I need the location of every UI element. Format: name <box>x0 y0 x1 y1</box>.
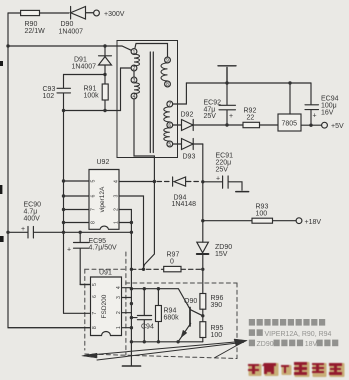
capacitor EC92 <box>219 83 236 125</box>
op-amp U91 FSD200 box <box>91 277 122 336</box>
node R93 tap <box>201 219 204 222</box>
wire U91 pin2 stub <box>122 312 132 314</box>
node D91 top <box>103 44 106 47</box>
wire U91 pin5 stub <box>80 284 90 286</box>
wire secondary gnd rail <box>186 82 311 84</box>
note text chinese <box>249 319 339 348</box>
node 7805 gnd <box>288 81 291 84</box>
resistor R90 <box>21 10 40 15</box>
wire U92 pin8 stub <box>64 222 90 224</box>
wire +18V vertical <box>202 144 204 242</box>
wire 7805 gnd pin <box>289 83 291 114</box>
transformer pin 6 <box>167 122 173 128</box>
resistor R95 <box>200 322 206 338</box>
leader arrowhead left <box>82 353 97 358</box>
capacitor EC91 <box>203 176 242 190</box>
winding 9-8 <box>161 63 168 81</box>
wire U92 pin2 stub <box>119 210 131 367</box>
transformer core <box>150 52 153 153</box>
resistor R96 <box>200 294 206 310</box>
zener ZD90 <box>197 242 209 253</box>
transformer pin 8 <box>165 81 171 87</box>
winding primary 1-2 <box>134 54 140 66</box>
wire R92 to 7805 <box>260 124 279 126</box>
node EC90 left <box>6 231 9 234</box>
wire pin4 to FB node <box>134 99 154 182</box>
leader arrow barb <box>215 343 242 358</box>
node collector <box>201 314 204 317</box>
node pin1 right <box>130 221 133 224</box>
wire U91 pin4 stub <box>122 287 132 289</box>
node EC91 tap <box>201 180 204 183</box>
transistor Q90 <box>189 308 191 327</box>
wire U92 pin6 stub <box>64 195 90 197</box>
leader arrow line upper <box>84 341 244 355</box>
wire snubber top rail <box>8 46 131 50</box>
transformer pin 5 <box>167 141 173 147</box>
transformer pin 3 <box>131 77 137 83</box>
wire base feed line <box>131 289 189 309</box>
node bottom c <box>157 340 160 343</box>
resistor R94 <box>157 289 159 342</box>
edge smudge 2 <box>0 185 2 194</box>
note line 3 <box>249 340 339 349</box>
transformer pin 1 <box>131 49 137 55</box>
terminal +18V <box>296 218 302 224</box>
wire drain bus <box>63 111 65 314</box>
node bus-EC90 cross <box>62 231 65 234</box>
wire U92 pin1 stub <box>119 222 131 224</box>
wire pin2 stub <box>121 67 132 69</box>
node D91 bottom <box>103 73 106 76</box>
wire 7805 output <box>301 124 322 126</box>
wire U91 pin8 stub <box>8 327 91 329</box>
wire R95 bottom <box>202 338 204 342</box>
wire pin7 riser to gnd rail <box>173 83 187 104</box>
wire U92 pin5 stub <box>64 180 90 182</box>
transformer pin 4 <box>131 93 137 99</box>
wire U91 pin3 stub <box>122 297 132 299</box>
leader arrowhead right <box>234 339 247 346</box>
winding 7-6 <box>164 107 170 122</box>
transformer T outer box <box>117 41 178 158</box>
note line 2 <box>249 329 332 338</box>
wire U91 pin1 stub <box>122 327 132 329</box>
node R97 left a <box>130 268 133 271</box>
winding 6-5 <box>164 128 170 141</box>
wire top input <box>8 12 69 14</box>
node at rail top <box>6 44 9 47</box>
wire snubber mid <box>64 74 106 76</box>
diode D90 <box>71 7 94 20</box>
pin digits U91 <box>92 283 122 329</box>
capacitor C94 <box>131 289 151 342</box>
node R94 riser top <box>157 287 160 290</box>
diode D91 <box>99 46 112 75</box>
emitter arrow Q90 <box>181 330 187 337</box>
transformer pin 7 <box>167 101 173 107</box>
node R91 bottom <box>103 109 106 112</box>
wire snubber bottom rail <box>64 68 121 111</box>
node gnd drop b <box>130 302 133 305</box>
node pin6 <box>62 194 65 197</box>
wire U92 pin3 stub <box>119 196 144 269</box>
node EC92 bottom <box>225 123 228 126</box>
terminal +5V <box>322 122 328 128</box>
dashed rework box <box>85 252 237 359</box>
node pin8 <box>62 221 65 224</box>
ground main <box>122 365 140 367</box>
wire U92 pin4 FB stub <box>119 181 154 183</box>
resistor R91 <box>104 75 106 111</box>
ground EC91 <box>236 191 249 193</box>
winding aux 3-4 <box>134 83 140 94</box>
node EC90 wire end <box>130 231 133 234</box>
node gnd drop a <box>130 287 133 290</box>
op-amp U92 VIPER12A box <box>89 170 119 230</box>
resistor R97 <box>164 266 181 271</box>
edge smudge 3 <box>0 236 4 242</box>
leader arrow line lower <box>97 342 244 360</box>
node bottom d <box>176 340 179 343</box>
node EC95 top <box>79 231 82 234</box>
node R97 right <box>201 268 204 271</box>
note line 1 glyph blobs <box>249 319 325 326</box>
wire FB drop jog <box>144 182 155 269</box>
wire R97 dashed line <box>131 268 201 270</box>
wire bottom node line <box>131 341 202 343</box>
wire R96-R95 node <box>202 309 204 322</box>
wire ZD90 to R97 line <box>202 255 204 294</box>
diode D92 <box>173 120 243 131</box>
node FB <box>153 180 156 183</box>
capacitor EC95 <box>74 232 91 284</box>
capacitor C93 <box>57 75 71 111</box>
node bottom b <box>143 340 146 343</box>
node R97 left b <box>142 268 145 271</box>
diode D94 dashed link <box>157 181 172 183</box>
node C93 bottom <box>62 109 65 112</box>
transformer pin 2 <box>131 65 137 71</box>
wire left +rail vertical <box>8 13 91 328</box>
regulator 7805 <box>278 114 301 131</box>
node C94 riser top <box>143 287 146 290</box>
wire R93 line <box>203 220 296 222</box>
node gnd drop c <box>130 316 133 319</box>
wire pin9 top link <box>135 44 168 58</box>
pin digits U92 <box>91 179 120 224</box>
node gnd drop d <box>130 326 133 329</box>
diode D93 <box>173 139 203 150</box>
terminal +300V <box>94 10 100 16</box>
capacitor EC94 <box>305 83 319 125</box>
node pin7 <box>62 208 65 211</box>
resistor R92 <box>243 122 260 127</box>
resistor R93 <box>252 218 273 223</box>
edge smudge 1 <box>0 61 3 66</box>
node bottom a <box>130 340 133 343</box>
node EC94 bottom <box>309 124 312 127</box>
wire U91 pin7 stub <box>64 312 91 314</box>
shield bar above rail <box>218 66 236 83</box>
wire pin2-pin3 <box>133 71 135 77</box>
node pin5 <box>62 179 65 182</box>
node gnd rail EC92 <box>225 81 228 84</box>
capacitor EC90 <box>8 227 131 239</box>
transformer pin 9 <box>165 57 171 63</box>
wire U92 pin7 stub <box>64 209 90 211</box>
